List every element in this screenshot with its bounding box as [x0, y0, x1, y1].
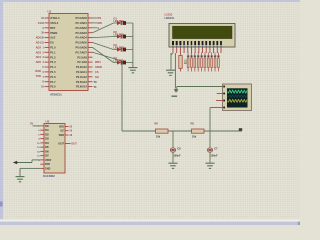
svg-text:OUT: OUT	[71, 142, 77, 146]
svg-text:CS: CS	[95, 70, 99, 74]
mcu U1 body	[49, 14, 88, 91]
resistor network R-array	[187, 53, 220, 72]
svg-text:RST: RST	[50, 26, 56, 30]
ground lcd vss	[166, 70, 175, 75]
svg-text:P0.0/AD0: P0.0/AD0	[76, 16, 88, 20]
svg-text:C7: C7	[214, 146, 218, 150]
wire lcd vdd	[174, 53, 176, 89]
U1 left pins	[41, 16, 60, 89]
scope pin stub C	[216, 100, 223, 102]
U2 iout pin	[65, 143, 71, 145]
svg-text:P2.3/A11: P2.3/A11	[76, 70, 87, 74]
ground U2	[16, 177, 25, 182]
svg-text:AD3: AD3	[36, 50, 42, 54]
svg-text:GND: GND	[45, 167, 51, 170]
led D3	[114, 43, 133, 52]
svg-text:P3.0: P3.0	[50, 85, 56, 89]
oscilloscope body	[223, 84, 252, 111]
svg-text:P1.2: P1.2	[50, 55, 56, 59]
svg-text:AD5: AD5	[36, 60, 42, 64]
svg-text:RW: RW	[98, 21, 103, 25]
svg-text:100nF: 100nF	[211, 154, 218, 157]
svg-text:P1.6: P1.6	[50, 75, 56, 79]
svg-text:ILE: ILE	[60, 130, 64, 133]
lcd pin name text	[172, 41, 222, 47]
wire scope channel A	[177, 86, 223, 88]
U2 gnd wire	[35, 167, 40, 169]
svg-text:5V: 5V	[30, 122, 33, 126]
svg-text:DI2: DI2	[45, 133, 49, 136]
scope pin dots	[223, 86, 225, 109]
svg-text:LM016L: LM016L	[165, 16, 175, 20]
svg-text:D3: D3	[114, 43, 118, 47]
svg-text:PSEN: PSEN	[50, 31, 57, 35]
svg-text:10k: 10k	[156, 135, 161, 138]
svg-text:TXD: TXD	[36, 74, 41, 78]
svg-text:P2.1/A9: P2.1/A9	[77, 60, 87, 64]
svg-text:VREF: VREF	[45, 159, 52, 162]
wire lcd vss	[170, 53, 172, 70]
svg-text:P0.4/AD4: P0.4/AD4	[76, 36, 88, 40]
svg-text:RFB: RFB	[45, 163, 50, 166]
svg-text:DI0: DI0	[45, 125, 49, 128]
led common cathode wire	[132, 23, 134, 67]
svg-text:XTAL1: XTAL1	[50, 16, 60, 20]
svg-text:P1.4: P1.4	[50, 65, 56, 69]
scope pin stub B	[217, 93, 223, 95]
svg-text:P1.3: P1.3	[50, 60, 56, 64]
svg-text:VDD: VDD	[59, 126, 64, 129]
svg-text:P2.6/A14: P2.6/A14	[76, 85, 87, 89]
svg-text:DI4: DI4	[45, 142, 49, 145]
svg-text:P0.7/AD7: P0.7/AD7	[76, 50, 88, 54]
svg-text:P0.3/AD3: P0.3/AD3	[76, 31, 88, 35]
scope trace yellow	[228, 99, 247, 102]
svg-text:ILE: ILE	[95, 75, 99, 79]
U1 right net labels lower	[95, 60, 102, 79]
svg-text:RXD: RXD	[35, 69, 41, 73]
svg-text:P0.5/AD5: P0.5/AD5	[76, 41, 88, 45]
svg-text:AD0: AD0	[36, 36, 42, 40]
svg-text:WR2: WR2	[59, 134, 65, 137]
wire rc bus	[122, 130, 242, 132]
svg-text:R8: R8	[191, 122, 195, 126]
svg-text:P2.0/A8: P2.0/A8	[77, 55, 87, 59]
led D1	[114, 16, 133, 25]
U2 pin RFB	[40, 163, 44, 165]
oscilloscope screen	[227, 88, 248, 107]
svg-text:P1.5: P1.5	[50, 70, 56, 74]
svg-text:DI5: DI5	[45, 146, 49, 149]
svg-text:AD4: AD4	[36, 55, 42, 59]
svg-text:P0.6/AD6: P0.6/AD6	[76, 46, 88, 50]
power terminal arrow	[174, 89, 177, 93]
wire down to rc filter	[121, 61, 123, 131]
svg-text:XTAL2: XTAL2	[50, 21, 59, 25]
svg-text:P0.1/AD1: P0.1/AD1	[76, 21, 88, 25]
lcd LCD1 frame	[169, 24, 235, 48]
svg-text:P1.0: P1.0	[50, 46, 56, 50]
svg-text:P2.2/A10: P2.2/A10	[76, 65, 87, 69]
svg-text:P2.4/A12: P2.4/A12	[76, 75, 87, 79]
led D2	[114, 30, 133, 39]
svg-text:AT89C51: AT89C51	[50, 92, 62, 96]
input terminal wire	[15, 162, 32, 164]
svg-text:AD1: AD1	[36, 41, 42, 45]
resistor R8	[191, 122, 205, 139]
lcd screen	[173, 26, 233, 38]
U2 left pins	[37, 125, 52, 162]
svg-text:RS: RS	[98, 16, 102, 20]
svg-text:100nF: 100nF	[174, 154, 181, 157]
svg-text:DI7: DI7	[45, 155, 49, 158]
svg-text:U1: U1	[48, 10, 52, 14]
svg-text:X1: X1	[38, 21, 42, 25]
U1 right pins	[76, 16, 93, 89]
svg-text:P1.1: P1.1	[50, 50, 56, 54]
svg-text:P2.5/A13: P2.5/A13	[76, 80, 87, 84]
U1 bottom right pin labels	[94, 80, 98, 89]
ground terminal arrow 2	[175, 89, 178, 93]
svg-text:D2: D2	[114, 30, 118, 34]
wire scope channel D	[210, 107, 223, 109]
resistor R6	[155, 122, 169, 139]
U1 right net labels top	[93, 16, 103, 30]
svg-text:XFER: XFER	[95, 65, 102, 69]
ground under leds	[128, 68, 137, 73]
svg-text:P1.7: P1.7	[50, 80, 56, 84]
U2 pin GND	[40, 167, 44, 169]
svg-text:EA: EA	[50, 41, 54, 45]
scope trace green	[228, 90, 247, 93]
svg-text:10k: 10k	[192, 135, 197, 138]
svg-text:ALE: ALE	[50, 36, 55, 40]
svg-text:AD2: AD2	[36, 45, 42, 49]
wire mcu to dac bus	[93, 52, 123, 61]
capacitor C6	[169, 131, 182, 168]
svg-text:D1: D1	[114, 16, 118, 20]
dac U2 body	[44, 124, 65, 174]
svg-text:WR1: WR1	[95, 60, 101, 64]
svg-text:R6: R6	[155, 122, 159, 126]
svg-text:DI6: DI6	[45, 150, 49, 153]
U2 vcc wire	[33, 125, 41, 127]
resistor RV1 body	[179, 56, 182, 69]
svg-text:IOUT: IOUT	[58, 143, 64, 146]
svg-text:C6: C6	[177, 146, 181, 150]
scope trace dim	[228, 95, 247, 97]
wires mcu to leds	[93, 23, 114, 63]
led D4	[114, 56, 133, 65]
svg-text:DI1: DI1	[45, 129, 49, 132]
input terminal arrow	[13, 161, 17, 164]
net label B end	[239, 128, 242, 131]
U2 right pins	[59, 126, 73, 138]
window frame border	[0, 0, 3, 225]
wire stub down	[176, 87, 178, 90]
lcd pins	[173, 48, 221, 54]
svg-text:D4: D4	[114, 56, 118, 60]
svg-text:DI3: DI3	[45, 138, 49, 141]
svg-text:DAC0832: DAC0832	[43, 174, 55, 178]
capacitor C7	[206, 131, 219, 168]
svg-text:LCD1: LCD1	[165, 13, 173, 17]
U1 left net labels	[35, 21, 41, 78]
svg-text:P0.2/AD2: P0.2/AD2	[76, 26, 88, 30]
